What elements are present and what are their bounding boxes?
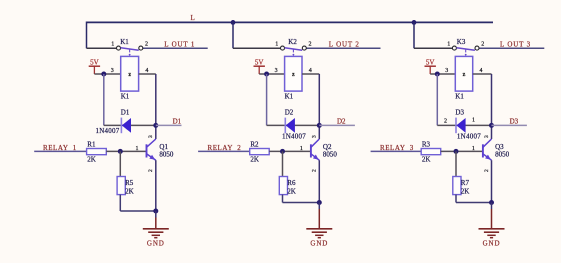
svg-text:L OUT 1: L OUT 1 [164, 41, 195, 49]
svg-text:3: 3 [445, 68, 448, 74]
svg-text:K1: K1 [285, 92, 294, 100]
svg-text:z: z [292, 72, 295, 78]
svg-text:2K: 2K [250, 156, 259, 164]
svg-text:3: 3 [148, 135, 154, 138]
svg-text:R3: R3 [422, 141, 431, 149]
svg-text:R5: R5 [125, 179, 134, 187]
svg-text:1: 1 [300, 146, 303, 152]
svg-text:RELAY 1: RELAY 1 [43, 144, 77, 152]
svg-text:3: 3 [312, 135, 318, 138]
svg-text:2K: 2K [125, 188, 134, 196]
svg-text:D2: D2 [337, 118, 346, 126]
svg-text:R6: R6 [287, 179, 296, 187]
svg-text:3: 3 [111, 68, 114, 74]
svg-text:1: 1 [275, 42, 278, 48]
svg-text:L OUT 3: L OUT 3 [500, 41, 531, 49]
svg-text:R2: R2 [250, 141, 259, 149]
svg-text:8050: 8050 [495, 150, 510, 158]
svg-text:2K: 2K [422, 156, 431, 164]
svg-text:2: 2 [312, 169, 318, 172]
svg-text:K1: K1 [120, 38, 129, 46]
svg-text:GND: GND [147, 240, 165, 248]
svg-text:RELAY 2: RELAY 2 [208, 144, 242, 152]
svg-text:8050: 8050 [159, 150, 174, 158]
svg-text:1: 1 [111, 42, 114, 48]
svg-text:5V: 5V [90, 58, 99, 66]
svg-text:1: 1 [136, 146, 139, 152]
svg-text:5V: 5V [255, 58, 264, 66]
svg-text:2: 2 [148, 169, 154, 172]
svg-text:R1: R1 [87, 141, 96, 149]
svg-text:8050: 8050 [323, 150, 338, 158]
svg-text:D1: D1 [173, 118, 182, 126]
svg-text:R7: R7 [461, 179, 470, 187]
svg-text:1N4007: 1N4007 [457, 133, 481, 141]
svg-text:RELAY 3: RELAY 3 [380, 144, 414, 152]
svg-text:GND: GND [483, 240, 501, 248]
svg-text:D3: D3 [455, 108, 464, 116]
svg-text:3: 3 [484, 135, 490, 138]
svg-text:1N4007: 1N4007 [282, 133, 306, 141]
svg-text:4: 4 [145, 68, 148, 74]
svg-text:K1: K1 [121, 92, 130, 100]
svg-text:D1: D1 [121, 108, 130, 116]
svg-text:K2: K2 [288, 38, 297, 46]
svg-text:z: z [128, 72, 131, 78]
svg-text:1: 1 [472, 146, 475, 152]
svg-text:5V: 5V [426, 58, 435, 66]
svg-text:3: 3 [275, 68, 278, 74]
svg-text:2: 2 [145, 42, 148, 48]
svg-text:2: 2 [444, 119, 447, 125]
svg-text:K1: K1 [455, 92, 464, 100]
svg-text:K3: K3 [457, 38, 466, 46]
svg-text:2K: 2K [87, 156, 96, 164]
svg-text:z: z [463, 72, 466, 78]
svg-text:D2: D2 [285, 108, 294, 116]
svg-text:L OUT 2: L OUT 2 [329, 41, 360, 49]
svg-text:GND: GND [310, 240, 328, 248]
svg-text:1: 1 [447, 42, 450, 48]
svg-text:1N4007: 1N4007 [96, 127, 120, 135]
svg-text:1: 1 [472, 117, 475, 123]
svg-text:2: 2 [481, 42, 484, 48]
svg-text:L: L [191, 14, 195, 22]
svg-text:2K: 2K [287, 188, 296, 196]
svg-text:D3: D3 [510, 118, 519, 126]
svg-text:2: 2 [484, 169, 490, 172]
svg-text:2K: 2K [461, 188, 470, 196]
svg-text:2: 2 [309, 42, 312, 48]
svg-text:4: 4 [480, 68, 483, 74]
svg-text:4: 4 [309, 68, 312, 74]
